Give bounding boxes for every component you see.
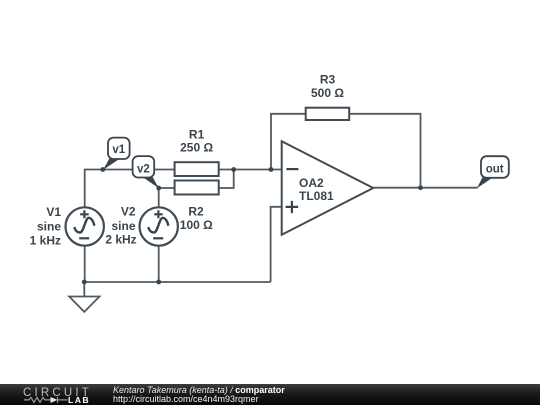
svg-text:2 kHz: 2 kHz: [105, 233, 136, 247]
svg-text:250 Ω: 250 Ω: [180, 141, 213, 155]
svg-text:V2: V2: [121, 205, 136, 219]
svg-text:v1: v1: [112, 144, 125, 156]
svg-text:R2: R2: [188, 205, 204, 219]
svg-text:LAB: LAB: [68, 395, 90, 405]
svg-text:v2: v2: [137, 163, 150, 175]
svg-text:OA2: OA2: [299, 176, 324, 190]
svg-text:sine: sine: [111, 219, 135, 233]
svg-text:R1: R1: [189, 128, 205, 142]
svg-text:1 kHz: 1 kHz: [30, 234, 61, 248]
svg-text:R3: R3: [320, 73, 336, 87]
svg-text:TL081: TL081: [299, 189, 334, 203]
svg-text:500 Ω: 500 Ω: [311, 86, 344, 100]
svg-text:out: out: [486, 164, 504, 176]
svg-text:100 Ω: 100 Ω: [180, 218, 213, 232]
svg-text:V1: V1: [46, 205, 61, 219]
svg-text:sine: sine: [37, 220, 61, 234]
